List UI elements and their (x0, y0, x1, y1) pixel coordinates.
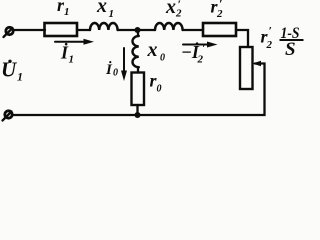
label -I2' (181, 41, 206, 66)
svg-text:0: 0 (157, 84, 162, 95)
label x1 (96, 0, 114, 20)
svg-text:1: 1 (109, 8, 115, 20)
label U1 (1, 58, 23, 84)
resistor R0 (132, 73, 145, 106)
svg-text:1: 1 (69, 54, 75, 66)
svg-text:′: ′ (202, 41, 206, 56)
wire input top (13, 29, 45, 31)
svg-text:x: x (147, 39, 158, 61)
svg-text:0: 0 (160, 53, 165, 64)
label r1 (57, 0, 70, 18)
wire shunt branch top (137, 30, 139, 36)
current arrow I0 (123, 48, 125, 73)
svg-text:2: 2 (266, 39, 273, 51)
svg-text:′: ′ (178, 0, 181, 11)
current arrow -I2' (183, 44, 209, 46)
wire to corner (236, 30, 248, 47)
wire right side down to bottom rail (12, 64, 265, 116)
resistor R2'(1-S)/S (240, 47, 253, 89)
svg-text:0: 0 (113, 68, 118, 79)
inductor x1 (90, 23, 118, 30)
wire (137, 67, 139, 73)
svg-text:1: 1 (64, 6, 70, 18)
terminal top-left (6, 27, 13, 34)
label x2' (165, 0, 182, 20)
svg-text:′: ′ (219, 0, 222, 11)
label r0 (150, 71, 162, 95)
wire (118, 29, 155, 31)
svg-text:x: x (96, 0, 107, 17)
svg-text:S: S (285, 39, 296, 60)
resistor R1 (45, 23, 78, 36)
label x0 (147, 39, 166, 64)
wire (183, 29, 203, 31)
svg-text:İ: İ (105, 61, 113, 78)
svg-text:′: ′ (269, 24, 272, 38)
label I1 (60, 42, 74, 66)
label I0 (105, 61, 118, 79)
wire shunt branch bottom (136, 105, 138, 115)
inductor x0 (133, 36, 139, 67)
svg-text:1: 1 (17, 70, 23, 84)
label r2' (211, 0, 224, 20)
wire arrowhead into resistor (253, 61, 262, 67)
terminal bottom-left (5, 111, 12, 118)
wire (77, 29, 90, 31)
label r2'(1-S)/S (261, 24, 304, 61)
inductor x2' (155, 23, 183, 30)
svg-text:x: x (165, 0, 176, 18)
current arrow I1 (55, 41, 86, 43)
node junction bottom (135, 112, 141, 118)
node junction top (135, 27, 141, 33)
resistor R2' (203, 23, 236, 36)
